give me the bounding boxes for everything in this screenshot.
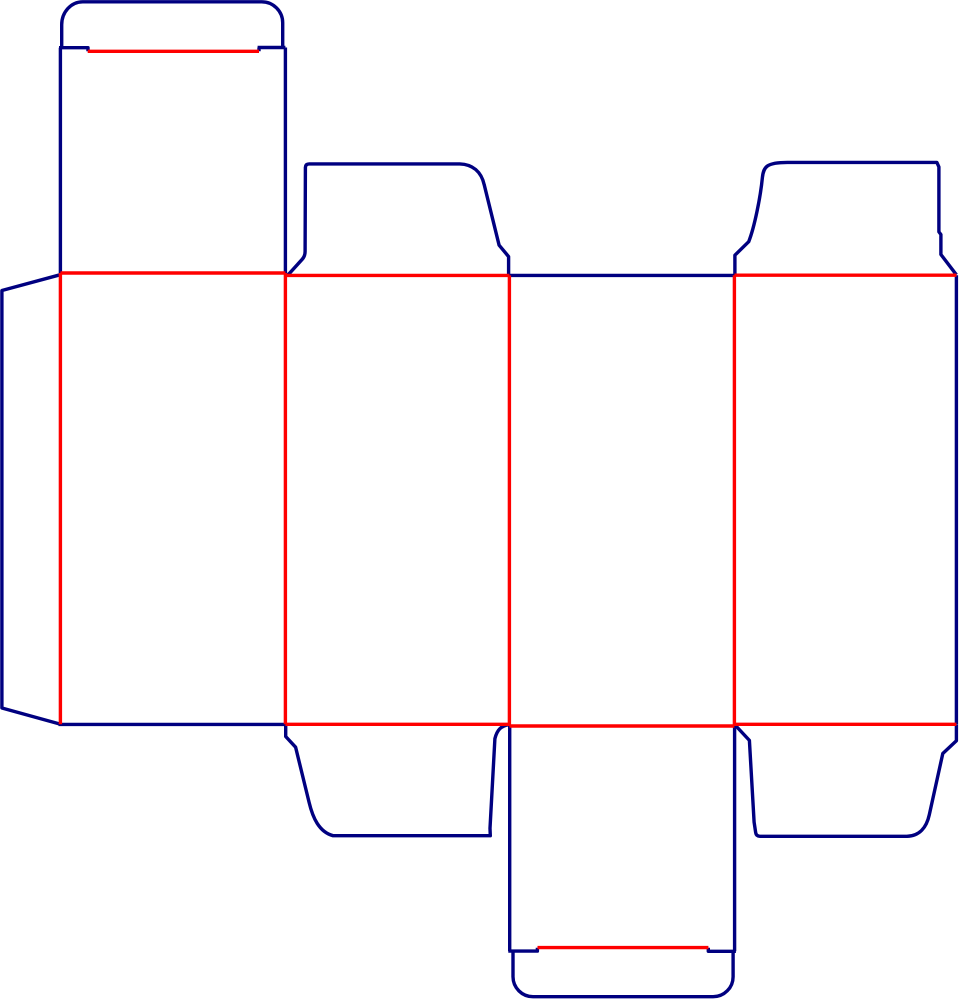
panel3 top edge cut (509, 274, 735, 277)
bottom tuck flap outline (513, 951, 733, 997)
crease top panel1 (60, 271, 285, 274)
tuck shoulder right ledge (258, 48, 286, 52)
crease bottom panel2 (285, 723, 509, 726)
panel4 right edge cut (955, 275, 958, 724)
panel1 right edge cut (284, 48, 287, 274)
glue flap left outline (2, 275, 61, 724)
panel4 top dust flap (735, 162, 957, 275)
panel4 bottom dust flap (735, 725, 957, 837)
bottom closure panel right edge cut (733, 726, 736, 951)
panel2 top dust flap (286, 164, 509, 276)
crease tuck flap top (88, 50, 259, 53)
crease vertical panel1-panel2 (284, 273, 287, 724)
crease bottom panel4 (734, 723, 956, 726)
panel1 left edge cut (59, 48, 62, 273)
tuck shoulder left ledge (59, 48, 88, 52)
crease vertical glue flap hinge (59, 273, 62, 724)
crease vertical panel3-panel4 (733, 275, 736, 726)
crease top panel2 (285, 274, 509, 277)
crease bottom panel3 (509, 724, 734, 727)
crease top panel4 (734, 274, 956, 277)
panel2 bottom dust flap (286, 725, 509, 836)
tuck flap top outline (62, 2, 283, 48)
bottom closure panel left edge cut (508, 726, 511, 951)
bottom shoulder left ledge (508, 948, 537, 951)
crease tuck flap bottom (538, 946, 709, 949)
panel1 bottom cut (59, 723, 287, 726)
bottom shoulder right ledge (708, 948, 736, 952)
crease vertical panel2-panel3 (508, 275, 511, 726)
